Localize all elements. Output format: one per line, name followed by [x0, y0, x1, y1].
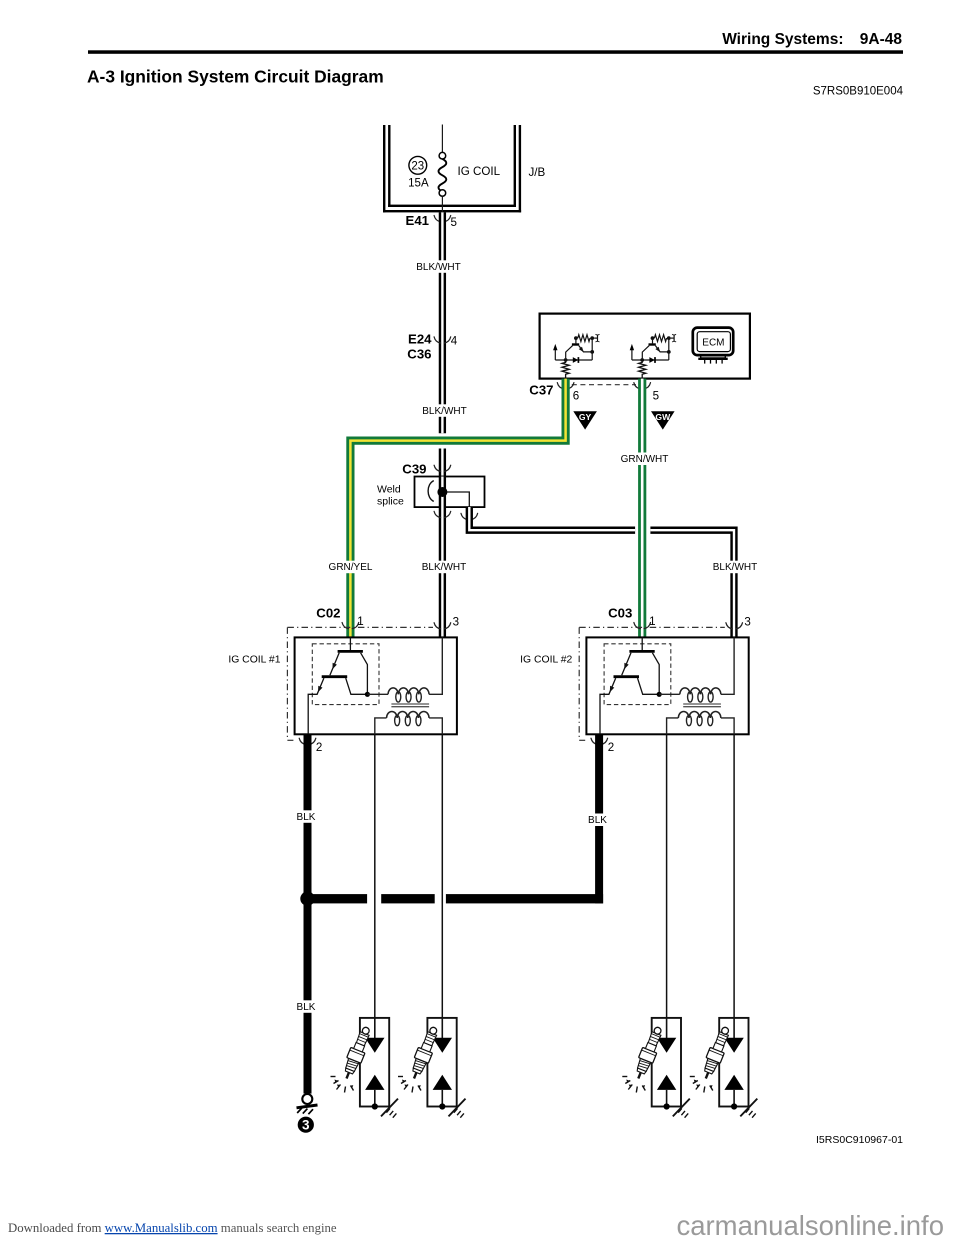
wire BLK/WHT weld splice to C02 pin 3 [439, 477, 446, 638]
fuse number 23 circled [409, 156, 427, 174]
darlington transistors 1 [308, 637, 370, 734]
ignition coil 1 body box [295, 637, 457, 734]
wire label BLK/WHT [415, 260, 463, 273]
coil primary winding 1 [367, 637, 442, 702]
wire BLK from C03 pin 2 [595, 734, 603, 903]
svg-text:C02: C02 [316, 606, 340, 621]
wire label BLK/WHT right [711, 561, 759, 574]
wire label BLK/WHT [420, 561, 468, 574]
coil secondary winding 1 [375, 711, 443, 734]
ECM driver circuit U1 (cyl 1-4) [553, 334, 599, 378]
junction block J/B box [383, 125, 521, 212]
svg-text:9A-48: 9A-48 [860, 31, 903, 48]
weld splice box [415, 477, 485, 508]
wire BLK/WHT weld splice to C03 pin 3 (with crossover gap) [469, 507, 734, 637]
wire BLK from C02 pin 2 to ground [304, 734, 312, 1093]
weld splice branch wire [428, 481, 469, 507]
ground at spark plug 1 [381, 1099, 398, 1118]
spark gap electrodes 4 [724, 1018, 743, 1110]
svg-text:C37: C37 [529, 383, 553, 398]
weld splice junction dot [437, 487, 447, 497]
connector E41 [406, 213, 457, 229]
footer manualslib note [8, 1221, 337, 1235]
ground at spark plug 3 [673, 1099, 690, 1118]
shield tag GY [573, 411, 597, 429]
svg-text:GY: GY [579, 412, 592, 422]
svg-text:GW: GW [655, 412, 671, 422]
svg-text:BLK: BLK [588, 815, 607, 826]
svg-text:J/B: J/B [529, 166, 546, 179]
svg-text:2: 2 [608, 741, 614, 754]
svg-text:splice: splice [377, 495, 404, 507]
spark plug unit 1 box [360, 1018, 389, 1107]
wire GRN/WHT from C37 pin 5 to C03 pin 1 [638, 379, 646, 638]
wire label BLK/WHT [421, 404, 469, 417]
shield tag GW [651, 411, 675, 429]
spark gap electrodes 1 [365, 1018, 384, 1110]
svg-text:carmanualsonline.info: carmanualsonline.info [676, 1210, 944, 1241]
spark gap electrodes 2 [433, 1018, 452, 1110]
svg-text:BLK/WHT: BLK/WHT [713, 562, 757, 573]
svg-text:5: 5 [451, 216, 457, 229]
svg-text:Downloaded from www.Manualslib: Downloaded from www.Manualslib.com manua… [8, 1221, 337, 1235]
wire label BLK right [587, 814, 609, 827]
ECM driver circuit U2 (cyl 2-3) [630, 334, 676, 378]
svg-text:GRN/WHT: GRN/WHT [621, 454, 669, 465]
svg-text:IG COIL #1: IG COIL #1 [228, 655, 280, 666]
spark plug unit 4 box [719, 1018, 748, 1107]
wire label BLK upper [295, 810, 317, 823]
spark plug unit 3 box [652, 1018, 681, 1107]
wire GRN/YEL from C37 pin 6 to C02 pin 1 [350, 379, 565, 638]
header page title Wiring Systems 9A-48 [722, 31, 902, 48]
svg-text:E41: E41 [406, 213, 429, 228]
svg-text:E24: E24 [408, 331, 432, 346]
svg-text:3: 3 [302, 1118, 310, 1133]
svg-text:C36: C36 [407, 347, 431, 362]
ground number 3 [298, 1117, 314, 1133]
ground at spark plug 2 [449, 1099, 466, 1118]
wire label GRN/YEL [327, 561, 375, 574]
svg-text:ECM: ECM [702, 338, 724, 349]
connector C02 pin 2 [299, 738, 322, 754]
coil secondary winding 2 [667, 711, 735, 734]
svg-text:3: 3 [744, 616, 750, 629]
ECM module icon [693, 328, 733, 364]
ground terminal E03 [297, 1094, 318, 1114]
svg-text:2: 2 [316, 741, 322, 754]
fuse 23 15A IG COIL [439, 152, 447, 213]
spark rays 4 [690, 1077, 713, 1093]
spark gap electrodes 3 [657, 1018, 676, 1110]
igniter unit dashed box [312, 644, 379, 705]
connector C39 [402, 461, 450, 476]
svg-text:5: 5 [653, 390, 659, 403]
svg-text:15A: 15A [408, 178, 429, 190]
wire label GRN/WHT [619, 453, 670, 466]
ground bus junction dot [300, 892, 314, 906]
igniter unit dashed box [604, 644, 671, 705]
connector C37 pins 6 and 5 [529, 383, 659, 403]
connector symbols below weld splice [434, 511, 478, 519]
spark plug icon 1 [339, 1025, 374, 1082]
ground at spark plug 4 [740, 1099, 757, 1118]
svg-text:BLK/WHT: BLK/WHT [422, 406, 466, 417]
spark rays 2 [398, 1077, 421, 1093]
wire BLK/WHT from E41 to weld splice [439, 212, 446, 476]
coil core 2 [683, 704, 721, 707]
spark rays 3 [622, 1077, 645, 1093]
coil primary winding 2 [659, 637, 734, 702]
spark plug icon 4 [699, 1025, 734, 1082]
svg-text:23: 23 [411, 160, 424, 172]
wire label BLK lower [295, 1000, 317, 1013]
svg-text:4: 4 [451, 335, 458, 348]
ignition coil 2 body box [586, 637, 748, 734]
svg-text:BLK/WHT: BLK/WHT [416, 262, 460, 273]
svg-text:1: 1 [649, 615, 655, 628]
svg-text:IG COIL #2: IG COIL #2 [520, 655, 572, 666]
connector C03 pin 2 [591, 738, 614, 754]
svg-text:C39: C39 [402, 461, 426, 476]
label weld splice [377, 483, 404, 507]
svg-text:6: 6 [573, 390, 579, 403]
svg-text:Weld: Weld [377, 483, 401, 495]
spark plug lead wires [375, 734, 734, 1018]
coil core 1 [391, 704, 429, 707]
spark plug icon 2 [407, 1025, 442, 1082]
svg-text:BLK/WHT: BLK/WHT [422, 562, 466, 573]
svg-text:Wiring Systems:: Wiring Systems: [722, 31, 843, 48]
ECM box [540, 314, 750, 379]
spark rays 1 [331, 1077, 354, 1093]
svg-text:C03: C03 [608, 606, 632, 621]
svg-text:IG COIL: IG COIL [458, 165, 501, 178]
svg-text:BLK: BLK [297, 1002, 316, 1013]
svg-text:A-3 Ignition System Circuit Di: A-3 Ignition System Circuit Diagram [87, 67, 384, 87]
ignition coil 2 dashed enclosure [579, 627, 725, 740]
svg-text:1: 1 [357, 615, 363, 628]
svg-text:BLK: BLK [297, 812, 316, 823]
svg-text:I5RS0C910967-01: I5RS0C910967-01 [816, 1134, 903, 1146]
wire BLK horizontal bus (crossover gaps at plug leads) [308, 894, 604, 903]
connector C03 pins 1 and 3 [608, 606, 751, 629]
spark plug unit 2 box [427, 1018, 456, 1107]
wire into fuse [441, 125, 443, 153]
connector E24 C36 pin 4 [407, 331, 458, 361]
darlington transistors 2 [600, 637, 662, 734]
connector C02 pins 1 and 3 [316, 606, 459, 629]
spark plug icon 3 [631, 1025, 666, 1082]
svg-text:S7RS0B910E004: S7RS0B910E004 [813, 86, 904, 98]
svg-text:GRN/YEL: GRN/YEL [329, 562, 373, 573]
ignition coil 1 dashed enclosure [287, 627, 433, 740]
header rule [88, 50, 903, 54]
svg-text:3: 3 [453, 616, 459, 629]
